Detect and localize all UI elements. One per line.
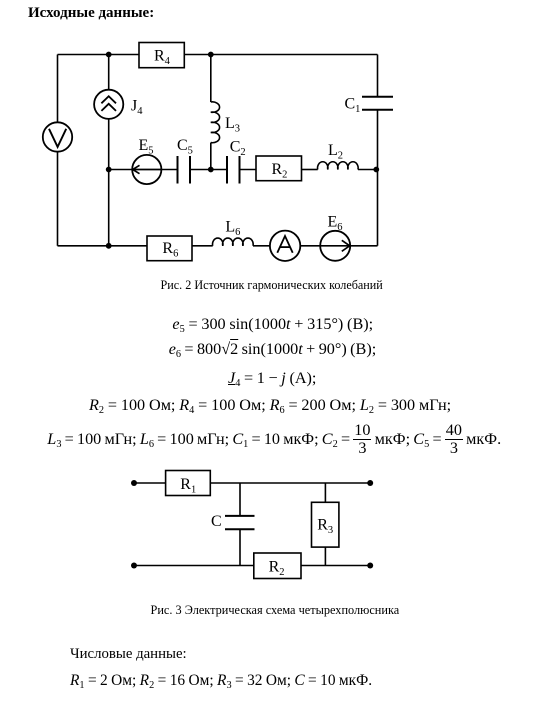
resistor R2 [256,156,302,181]
capacitor C1 [362,96,393,98]
junction top at L3 branch [208,52,214,58]
svg-text:J4: J4 [131,98,143,118]
junction bottom at J4 branch [106,243,112,249]
wire J4 branch upper [108,55,110,90]
wire bottom E6-to-corner [350,245,377,247]
wire C branch upper [239,483,241,516]
wire left side lower [57,152,59,246]
wire J4 branch lower [108,119,110,246]
wire bottom right [301,565,370,567]
wire R2-to-L2 [302,169,318,171]
wire L2-to-right [358,169,378,171]
wire C5-to-C2 [190,169,227,171]
wire R3 branch lower [324,547,326,565]
wire bottom left [134,565,254,567]
ammeter A [270,231,300,261]
voltmeter V [43,122,72,151]
emf source E5 [132,155,161,184]
capacitor C2 [226,156,228,184]
resistor R3 [312,502,339,547]
formula line R values [89,397,451,413]
svg-text:C1: C1 [345,96,361,116]
wire bottom-left segment [58,245,148,247]
heading [28,6,154,21]
wire L3 branch lower [210,143,212,170]
wire bottom R6-to-L6 [192,245,213,247]
formula line J4 [228,370,316,386]
svg-text:C2: C2 [230,139,246,159]
caption figure 3 [151,604,400,616]
wire bottom L6-to-A [253,245,270,247]
wire middle J4-to-E5 [109,169,133,171]
resistor R4 [139,43,184,68]
wire R3 branch upper [324,483,326,502]
wire bottom A-to-E6 [300,245,320,247]
svg-text:E5: E5 [139,137,154,157]
wire top-left segment [58,54,140,56]
junction right middle [373,167,379,173]
emf source E6 [320,231,350,261]
formula line e5 [172,316,373,332]
wire top middle-right [210,482,370,484]
svg-text:C5: C5 [177,137,193,157]
capacitor C5 [177,156,179,184]
resistor R2 of figure 3 [254,553,301,579]
wire E5-to-C5 [161,169,177,171]
junction middle at L3 branch [208,167,214,173]
wire right side upper [377,55,379,97]
junction middle at J4 branch [106,167,112,173]
svg-text:L3: L3 [225,115,240,135]
svg-text:L6: L6 [225,218,240,238]
wire L3 branch upper [210,55,212,103]
wire left side upper [57,55,59,123]
numeric data heading [70,647,187,662]
wire top-right segment [185,54,378,56]
wire C branch lower [239,529,241,565]
formula line L and C values [47,422,501,457]
wire right side lower [377,110,379,246]
capacitor C [225,515,255,517]
circuit figure 3 [134,471,370,579]
terminal dot bottom-right [367,563,373,569]
terminal dot top-left [131,480,137,486]
caption figure 2 [161,279,383,291]
resistor R6 [147,236,192,261]
svg-text:E6: E6 [328,213,343,233]
svg-text:C: C [211,513,222,530]
inductor L6 [213,238,254,246]
inductor L3 [211,102,220,143]
wire input top [134,482,166,484]
wire C2-to-R2 [240,169,257,171]
terminal dot bottom-left [131,563,137,569]
terminal dot top-right [367,480,373,486]
svg-text:L2: L2 [328,142,343,162]
current source J4 [94,90,123,119]
numeric data values [70,673,372,688]
resistor R1 [166,471,211,496]
formula line e6 [169,341,377,357]
inductor L2 [318,162,359,170]
junction top at J4 branch [106,52,112,58]
